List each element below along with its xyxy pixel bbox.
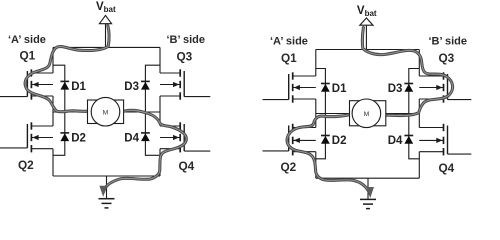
transistor Q3 bbox=[419, 72, 471, 102]
svg-text:Q2: Q2 bbox=[281, 160, 297, 174]
diode D4 bbox=[141, 133, 150, 141]
svg-text:D2: D2 bbox=[332, 135, 347, 147]
transistor Q2 bbox=[0, 122, 53, 152]
svg-text:D4: D4 bbox=[388, 135, 403, 147]
current path left: Vbat to motor via Q1 bbox=[25, 26, 109, 112]
wire D1 branch bbox=[316, 69, 326, 159]
diode D3 bbox=[141, 81, 150, 89]
svg-text:D1: D1 bbox=[332, 83, 347, 95]
transistor Q2 bbox=[263, 124, 316, 156]
diode D1 bbox=[321, 84, 330, 92]
diode D4 bbox=[404, 136, 413, 144]
svg-text:Q4: Q4 bbox=[179, 159, 195, 173]
wire motor left bbox=[53, 111, 88, 113]
wire top rail bbox=[53, 46, 160, 48]
svg-text:D2: D2 bbox=[71, 132, 86, 144]
wire left side vertical bbox=[315, 50, 317, 179]
ground bbox=[360, 178, 376, 208]
Vbat arrow bbox=[99, 15, 111, 23]
wire D3 branch bbox=[409, 69, 420, 159]
transistor Q1 bbox=[0, 69, 53, 99]
svg-text:Q1: Q1 bbox=[281, 51, 297, 65]
wire right side vertical bbox=[159, 47, 161, 176]
diode D2 bbox=[60, 133, 69, 141]
svg-text:D1: D1 bbox=[71, 81, 86, 93]
wire motor right bbox=[124, 111, 160, 113]
svg-text:Q3: Q3 bbox=[177, 50, 193, 64]
transistor Q4 bbox=[160, 122, 210, 152]
svg-text:D4: D4 bbox=[124, 132, 139, 144]
wire motor right bbox=[386, 113, 420, 115]
ground bbox=[99, 176, 115, 208]
svg-text:Q3: Q3 bbox=[439, 51, 455, 65]
current path left: motor to ground via Q4 bbox=[99, 110, 186, 197]
svg-text:‘B’ side: ‘B’ side bbox=[429, 35, 468, 47]
current path right: Vbat to motor via Q3 bbox=[362, 28, 452, 116]
svg-text:M: M bbox=[364, 111, 370, 118]
wire motor left bbox=[316, 113, 350, 115]
svg-text:Vbat: Vbat bbox=[96, 1, 116, 14]
svg-text:Vbat: Vbat bbox=[357, 5, 377, 18]
diode D1 bbox=[60, 81, 69, 89]
wire left side vertical bbox=[52, 47, 54, 176]
svg-text:‘A’ side: ‘A’ side bbox=[8, 34, 46, 46]
wire Vbat lead bbox=[365, 25, 367, 49]
wire right side vertical bbox=[418, 50, 420, 179]
transistor Q4 bbox=[419, 124, 471, 156]
svg-text:M: M bbox=[103, 109, 109, 116]
motor M bbox=[88, 97, 124, 126]
svg-text:Q4: Q4 bbox=[439, 161, 455, 175]
wire bottom rail bbox=[53, 175, 160, 177]
svg-text:D3: D3 bbox=[124, 81, 139, 93]
wire bottom rail bbox=[316, 177, 420, 179]
Vbat arrow bbox=[360, 18, 373, 25]
motor M bbox=[350, 99, 386, 128]
svg-text:‘A’ side: ‘A’ side bbox=[270, 35, 308, 47]
svg-text:D3: D3 bbox=[388, 83, 403, 95]
wire D3 branch bbox=[145, 65, 160, 155]
svg-text:Q1: Q1 bbox=[20, 49, 36, 63]
svg-text:‘B’ side: ‘B’ side bbox=[167, 34, 206, 46]
transistor Q3 bbox=[160, 69, 210, 99]
transistor Q1 bbox=[263, 72, 316, 102]
svg-text:Q2: Q2 bbox=[18, 158, 34, 172]
current path right: motor to ground via Q2 bbox=[287, 115, 374, 199]
diode D2 bbox=[321, 136, 330, 144]
wire Vbat lead bbox=[105, 24, 107, 48]
wire top rail bbox=[316, 49, 420, 51]
diode D3 bbox=[404, 84, 413, 92]
wire D1 branch bbox=[53, 65, 65, 155]
